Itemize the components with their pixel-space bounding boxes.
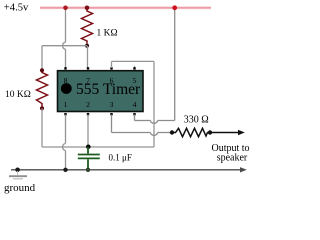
node junction dot R2 top [40,68,44,72]
pin 5 pad (unconnected stub) [134,66,136,68]
svg-text:8: 8 [64,76,68,85]
pin 2 pad [87,113,89,115]
node junction dot rail/pin8 [63,6,68,11]
wire output to speaker with arrow [210,132,239,134]
svg-text:1: 1 [64,100,68,109]
node junction dot rail/pin4 wire [172,5,177,10]
wire R2 bottom down and right to pins2-6 net [41,108,43,147]
node junction dot R2 bottom [40,106,44,110]
op U1 pin1 marker circle [61,83,72,94]
wire R1 bottom to R2 top (horizontal) [42,45,87,47]
capacitor C1 0.1uF [78,147,100,170]
wire down to R2 [41,46,43,69]
node junction dot ground symbol [15,168,20,173]
svg-text:2: 2 [86,100,90,109]
node junction dot R1 bottom [85,44,89,48]
op timer IC U1 555 body [58,71,144,112]
node junction dot pins2-6 net [86,145,91,150]
wire pin 2 down to capacitor [87,115,89,148]
svg-text:7: 7 [86,76,90,85]
resistor R1 1 KOhm [82,9,93,44]
wire R1 bottom to pin 7 [87,46,89,69]
svg-text:speaker: speaker [217,153,248,164]
node junction dot rail/R1 top [85,6,90,11]
node junction dot R3 right [208,130,212,134]
svg-text:+4.5v: +4.5v [4,2,29,13]
wire pin8 to rail (vertical, with hop over horizontal wire) [63,8,66,69]
svg-text:3: 3 [110,100,114,109]
svg-text:6: 6 [110,76,114,85]
svg-text:1 KΩ: 1 KΩ [97,29,118,39]
pin 6 pad [110,67,112,69]
pin 4 pad [133,113,135,115]
node junction dot capacitor/ground [86,168,90,172]
svg-text:10 KΩ: 10 KΩ [5,90,31,100]
resistor R2 10 KOhm [37,71,48,107]
wire ground rail with arrow [11,169,241,171]
ground symbol [9,171,27,179]
svg-text:4: 4 [133,100,137,109]
svg-text:330 Ω: 330 Ω [184,114,209,125]
svg-text:5: 5 [133,76,137,85]
node junction dot pin1/ground [63,168,67,172]
pin 3 pad [110,113,112,115]
resistor R3 330 Ohm [172,128,210,136]
pin 1 pad [64,113,66,115]
wire +4.5v supply rail [40,7,211,10]
wire pin 4 to +4.5v rail (with hop) [135,8,175,124]
svg-text:ground: ground [4,182,36,194]
wire pin 1 down to ground (with hop) [63,115,66,170]
node junction dot R3 left [170,130,174,134]
pin 8 pad [64,67,66,69]
svg-text:0.1 μF: 0.1 μF [109,152,132,162]
pin 7 pad [87,67,89,69]
wire pin 6 up and over IC to pins2-6 net [112,61,155,147]
wire pin 3 output down and right (with hop) [112,115,173,136]
